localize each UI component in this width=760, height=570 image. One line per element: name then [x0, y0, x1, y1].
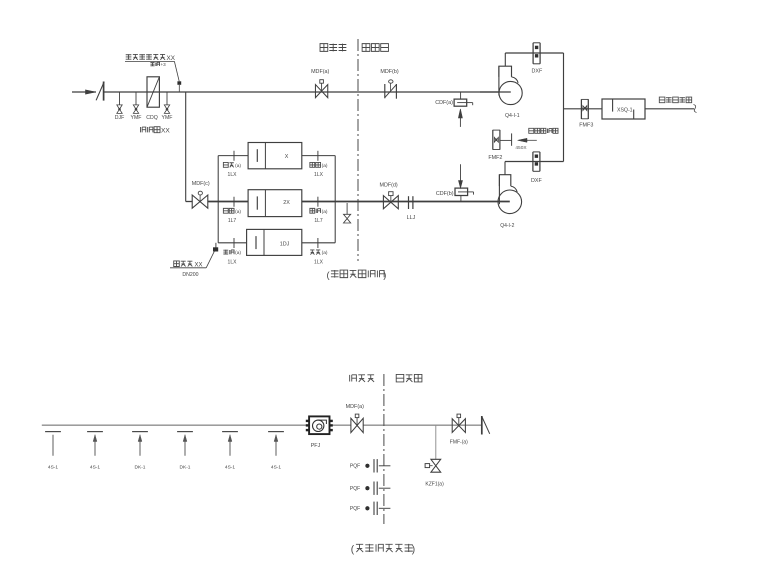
svg-text:4S-1: 4S-1 — [90, 465, 100, 471]
svg-text:FMF-(a): FMF-(a) — [450, 440, 468, 446]
svg-text:2X: 2X — [283, 200, 290, 206]
svg-text:DJF: DJF — [115, 115, 125, 121]
svg-text:Q4-I-1: Q4-I-1 — [505, 113, 520, 119]
svg-text:DK-1: DK-1 — [180, 465, 191, 471]
svg-text:(a): (a) — [235, 209, 241, 215]
svg-text:YMF: YMF — [162, 115, 173, 121]
svg-text:PQF: PQF — [350, 486, 360, 492]
svg-text:): ) — [412, 545, 415, 556]
svg-text:CDQ: CDQ — [146, 115, 158, 121]
svg-text:1L7: 1L7 — [314, 218, 323, 224]
svg-text:X: X — [285, 154, 289, 160]
svg-text:): ) — [383, 269, 386, 280]
svg-text:MDF(a): MDF(a) — [346, 404, 364, 410]
svg-text:4S-1: 4S-1 — [48, 465, 58, 471]
svg-text:PFJ: PFJ — [311, 443, 321, 449]
svg-text:DXF: DXF — [532, 68, 543, 74]
svg-text:YMF: YMF — [131, 115, 142, 121]
svg-text:450X: 450X — [515, 145, 527, 151]
svg-text:(a): (a) — [235, 250, 241, 256]
svg-text:1DJ: 1DJ — [280, 241, 290, 247]
svg-text:PQF: PQF — [350, 506, 360, 512]
svg-text:DK-1: DK-1 — [135, 465, 146, 471]
svg-text:FMF2: FMF2 — [488, 155, 502, 161]
svg-text:1LX: 1LX — [228, 259, 238, 265]
svg-text:(a): (a) — [322, 250, 328, 256]
svg-text:Q4-I-2: Q4-I-2 — [500, 223, 514, 229]
svg-text:MDF(d): MDF(d) — [379, 183, 397, 189]
svg-text:MDF(a): MDF(a) — [311, 69, 329, 75]
svg-text:MDF(b): MDF(b) — [380, 69, 398, 75]
svg-text:1LX: 1LX — [314, 172, 324, 178]
svg-text:CDF(b): CDF(b) — [436, 191, 454, 197]
svg-text:1L7: 1L7 — [228, 218, 237, 224]
svg-text:(a): (a) — [322, 209, 328, 215]
svg-text:CDF(a): CDF(a) — [435, 100, 453, 106]
svg-text:XSQ-1: XSQ-1 — [617, 107, 633, 113]
svg-text:1LX: 1LX — [314, 259, 324, 265]
svg-text:4S-1: 4S-1 — [225, 465, 235, 471]
svg-text:XX: XX — [161, 128, 170, 135]
svg-text:LLJ: LLJ — [407, 215, 416, 221]
svg-text:(a): (a) — [322, 163, 328, 169]
svg-text:1LX: 1LX — [228, 172, 238, 178]
svg-text:4S-1: 4S-1 — [271, 465, 281, 471]
svg-text:FMF3: FMF3 — [579, 122, 593, 128]
svg-text:(: ( — [327, 269, 331, 280]
svg-text:PQF: PQF — [350, 464, 360, 470]
svg-text:+3: +3 — [161, 62, 167, 67]
svg-text:DN200: DN200 — [182, 272, 198, 278]
svg-text:KZF1(a): KZF1(a) — [425, 482, 444, 488]
svg-text:DXF: DXF — [531, 178, 542, 184]
svg-text:MDF(c): MDF(c) — [192, 181, 210, 187]
svg-text:(: ( — [351, 545, 355, 556]
svg-text:(a): (a) — [235, 163, 241, 169]
